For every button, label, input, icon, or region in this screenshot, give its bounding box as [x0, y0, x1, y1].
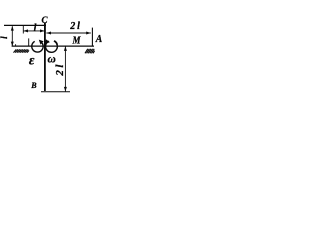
tick left end of dim l — [22, 26, 24, 34]
dimension l left arrowhead — [23, 29, 28, 32]
right vertical dimension line 2l — [64, 46, 66, 91]
left wall hatching — [14, 49, 30, 52]
right wall hatching under A — [85, 49, 95, 54]
tick at A — [91, 28, 93, 47]
tick at C — [44, 23, 46, 34]
left dim top arrowhead — [11, 26, 14, 31]
dimension line l (horizontal) — [23, 30, 44, 32]
bearing line (horizontal through shaft) — [12, 45, 94, 47]
bearing post — [28, 38, 30, 46]
left dim bottom arrowhead — [11, 42, 14, 47]
svg-text:B: B — [30, 81, 37, 90]
svg-text:2l: 2l — [54, 62, 66, 77]
omega arc start (thick segment) — [54, 41, 57, 45]
omega arrowhead — [45, 39, 50, 44]
svg-text:2l: 2l — [69, 21, 81, 32]
left vertical dimension line l — [11, 26, 13, 46]
svg-text:l: l — [34, 23, 37, 34]
svg-text:A: A — [95, 33, 102, 45]
right dim bottom arrowhead — [64, 87, 67, 92]
omega rotation arrow circle — [46, 41, 58, 52]
small tick on shelf — [15, 44, 17, 46]
dimension 2l right arrowhead — [86, 32, 91, 35]
svg-text:ε: ε — [29, 52, 35, 67]
dimension l right arrowhead — [40, 29, 45, 32]
right dim top arrowhead — [64, 46, 67, 51]
svg-text:C: C — [41, 15, 48, 25]
shaft CB (vertical) — [44, 23, 46, 91]
svg-text:M: M — [72, 36, 81, 47]
epsilon rotation arrow circle — [32, 41, 43, 52]
top bar (ceiling line to C) — [4, 24, 46, 26]
dimension 2l left arrowhead — [46, 32, 51, 35]
epsilon arrowhead — [39, 40, 44, 45]
bottom reference line at B — [41, 91, 70, 93]
dimension line 2l (horizontal to A) — [46, 32, 90, 34]
